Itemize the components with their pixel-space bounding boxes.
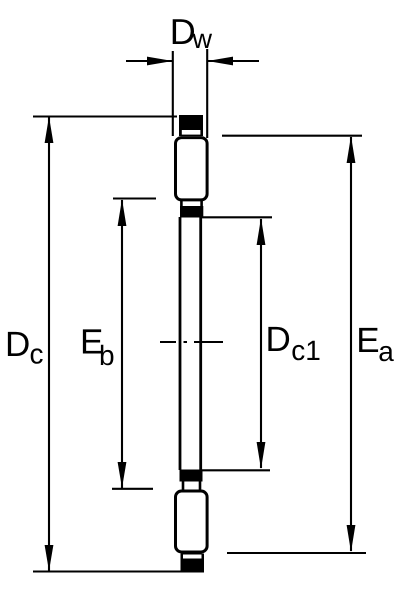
Dc top extension line xyxy=(33,115,177,117)
label Dc xyxy=(5,325,44,370)
Dw right extension line xyxy=(206,49,208,138)
Dc1 bottom extension line xyxy=(202,469,270,471)
top neck right line xyxy=(200,201,203,207)
svg-text:a: a xyxy=(378,336,394,367)
Dw left extension line xyxy=(172,51,174,136)
Eb bottom extension line xyxy=(112,488,153,490)
bottom roller xyxy=(176,491,208,552)
Dw dimension line right tail xyxy=(208,60,259,62)
Ea top arrowhead xyxy=(347,136,356,163)
Dw left arrowhead xyxy=(147,57,173,66)
bottom washer black band xyxy=(181,554,205,571)
Dw dimension line left tail xyxy=(126,60,172,62)
Eb top extension line xyxy=(113,197,156,199)
Ea top extension line xyxy=(222,135,362,137)
Eb bottom arrowhead xyxy=(118,462,127,488)
svg-text:c1: c1 xyxy=(291,335,321,366)
cage strip left line xyxy=(179,217,182,470)
Eb dimension line xyxy=(121,200,123,488)
svg-text:c: c xyxy=(30,339,44,370)
Ea dimension line xyxy=(350,137,352,551)
centerline dash-dot xyxy=(160,341,223,343)
Dc1 top extension line xyxy=(202,216,272,218)
Ea bottom extension line xyxy=(227,552,366,554)
bottom neck left line xyxy=(182,481,185,490)
Dc1 dimension line xyxy=(260,219,262,468)
Ea bottom arrowhead xyxy=(347,525,356,552)
Dc1 top arrowhead xyxy=(257,218,266,245)
Dc dimension line xyxy=(48,117,50,571)
Dc top arrowhead xyxy=(45,117,54,144)
label Dc1 xyxy=(266,320,321,366)
label Eb xyxy=(80,323,115,372)
Eb top arrowhead xyxy=(118,199,127,226)
cage strip right line xyxy=(199,217,202,470)
Dc1 bottom arrowhead xyxy=(257,442,266,469)
bottom cage inner band xyxy=(180,470,203,482)
Dc bottom arrowhead xyxy=(45,545,54,571)
label Dw xyxy=(170,11,213,54)
top neck left line xyxy=(180,201,183,207)
top roller xyxy=(176,138,208,200)
Dc bottom extension line xyxy=(33,571,204,573)
top washer black band xyxy=(179,115,203,136)
svg-text:D: D xyxy=(266,320,291,359)
bottom neck right line xyxy=(199,481,202,490)
top cage inner band xyxy=(180,206,203,218)
svg-text:D: D xyxy=(5,325,30,364)
label Ea xyxy=(356,321,394,367)
svg-text:b: b xyxy=(99,340,115,371)
Dw right arrowhead xyxy=(207,57,233,66)
svg-text:E: E xyxy=(356,321,379,360)
svg-text:w: w xyxy=(192,24,213,54)
